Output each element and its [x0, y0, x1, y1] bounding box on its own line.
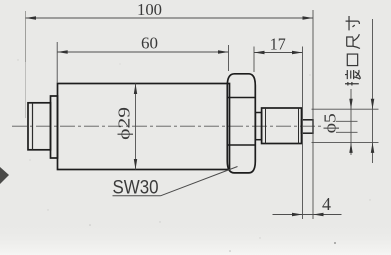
extension line far-left (dim 100) [25, 11, 27, 62]
left edge scan wedge [0, 167, 9, 184]
dim 100 line [26, 17, 314, 19]
tip extension tick bottom [336, 131, 358, 133]
dim 17 right arrow [292, 51, 303, 54]
svg-text:ϕ29: ϕ29 [115, 107, 134, 140]
SW30 underline [113, 195, 161, 197]
dim phi29 text [115, 107, 134, 140]
L1 lower arrow [349, 142, 352, 153]
dim 60 line [57, 51, 228, 53]
dim 17 line [254, 52, 303, 54]
L2 lower arrow [371, 142, 375, 153]
left flange [51, 96, 58, 158]
interface-size dimension line L1 [350, 89, 352, 155]
extension line tip-end (dim 100 right / dim 4 right) [312, 10, 314, 219]
SW30 leader [161, 167, 238, 196]
char kou [347, 54, 357, 66]
hex nut SW30 silhouette [227, 74, 255, 173]
hex nut face line upper [227, 97, 255, 99]
phi5 tip [302, 120, 314, 133]
hex nut face line lower [227, 144, 255, 146]
dim 100 right arrow [303, 16, 314, 19]
svg-text:4: 4 [322, 194, 331, 214]
thread extension tick top [312, 108, 379, 110]
faint speckles [334, 242, 336, 244]
svg-text:17: 17 [270, 35, 286, 54]
neck between nut and thread [255, 113, 261, 140]
svg-text:ϕ5: ϕ5 [321, 113, 340, 133]
thread chamfer line right [298, 108, 300, 144]
dim phi29 line [135, 84, 137, 170]
extension line nut-right (dim 17 left) [253, 47, 255, 73]
dim phi29 bottom arrow [134, 159, 137, 170]
tip extension tick top [336, 120, 358, 122]
centerline [12, 125, 322, 127]
phi5 text [321, 113, 340, 133]
dim 17 left arrow [254, 51, 265, 54]
chinese label jie-kou-chi-cun (interface size), rotated, hand strokes [345, 16, 361, 86]
svg-text:100: 100 [137, 0, 162, 19]
extension line nut-left (dim 60 right) [228, 45, 230, 71]
left end cap chamfer line [32, 103, 34, 150]
dim phi29 top arrow [134, 84, 137, 95]
dim 60 right arrow [218, 50, 229, 53]
char jie (bottom) [345, 70, 361, 86]
dim 4 right arrow [313, 213, 324, 216]
extension line thread-end (dim 17 right / dim 4 left) [302, 47, 304, 220]
thread chamfer line left [265, 108, 267, 144]
thread extension tick bottom [312, 141, 379, 143]
phi5 dimension line L2 [372, 19, 374, 163]
extension line body-left (dim 60) [56, 42, 58, 83]
left end cap [28, 103, 51, 150]
dim 100 left arrow [26, 16, 37, 19]
main body (phi 29 cylinder) [58, 84, 230, 170]
char cun (top) [346, 16, 360, 30]
threaded section [262, 108, 302, 144]
svg-text:60: 60 [141, 34, 158, 53]
char chi [347, 34, 360, 48]
dim 4 left arrow [292, 213, 303, 216]
L1 upper arrow [349, 99, 352, 110]
L2 upper arrow [371, 99, 375, 110]
dim 4 line [273, 214, 342, 216]
dim 60 left arrow [57, 50, 67, 53]
